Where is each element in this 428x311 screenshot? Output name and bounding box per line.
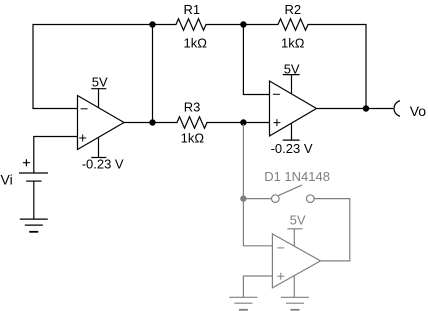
svg-text:1kΩ: 1kΩ (184, 35, 208, 50)
svg-text:-0.23 V: -0.23 V (82, 156, 124, 171)
svg-text:5V: 5V (284, 62, 300, 77)
svg-text:-0.23 V: -0.23 V (271, 141, 313, 156)
svg-text:R3: R3 (184, 100, 201, 115)
svg-text:Vi: Vi (1, 172, 13, 188)
svg-text:5V: 5V (290, 212, 306, 227)
svg-text:R1: R1 (184, 2, 201, 17)
svg-text:D1 1N4148: D1 1N4148 (264, 169, 330, 184)
svg-text:5V: 5V (92, 75, 108, 90)
svg-text:Vo: Vo (410, 103, 427, 119)
svg-text:1kΩ: 1kΩ (181, 131, 205, 146)
svg-text:R2: R2 (285, 2, 302, 17)
svg-text:1kΩ: 1kΩ (281, 35, 305, 50)
